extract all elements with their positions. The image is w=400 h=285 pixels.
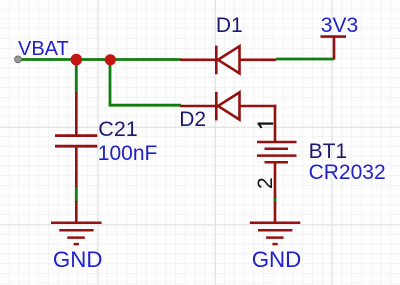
wire BT1 bottom to GND bbox=[274, 197, 277, 203]
pin number 1 bbox=[258, 123, 274, 128]
node VBAT open-end gray dot bbox=[15, 56, 22, 63]
svg-text:100nF: 100nF bbox=[98, 142, 158, 165]
major grid line vertical x=98 bbox=[97, 0, 99, 285]
junction node J1 bbox=[71, 54, 83, 66]
ground GND right bbox=[250, 202, 300, 244]
capacitor C21 bbox=[55, 92, 97, 187]
battery BT1 bbox=[257, 142, 297, 198]
svg-text:CR2032: CR2032 bbox=[309, 161, 386, 184]
svg-text:GND: GND bbox=[252, 247, 302, 272]
svg-text:D1: D1 bbox=[216, 14, 243, 37]
wire J2 down and right to D2 bbox=[109, 60, 181, 106]
ground GND left bbox=[51, 201, 102, 244]
svg-text:VBAT: VBAT bbox=[18, 38, 69, 60]
major grid line vertical x=332 bbox=[331, 0, 333, 285]
wire D2 down to BT1 bbox=[274, 105, 277, 141]
power port 3V3 bbox=[321, 37, 347, 60]
major grid line horizontal y=127 bbox=[0, 126, 400, 128]
svg-text:GND: GND bbox=[53, 247, 103, 272]
major grid line horizontal y=225 bbox=[0, 224, 400, 226]
svg-text:3V3: 3V3 bbox=[321, 14, 358, 37]
wire VBAT rail bbox=[18, 58, 181, 61]
diode D1 bbox=[180, 46, 276, 75]
junction node J2 bbox=[105, 54, 116, 65]
diode D2 bbox=[180, 92, 276, 121]
svg-text:BT1: BT1 bbox=[309, 140, 348, 163]
svg-text:2: 2 bbox=[254, 177, 277, 189]
major grid line vertical x=215.5 bbox=[215, 0, 217, 285]
wire C21 bottom to GND bbox=[75, 186, 78, 202]
wire D1 to 3V3 bbox=[276, 58, 334, 61]
svg-text:D2: D2 bbox=[179, 108, 206, 131]
wire J1 down to C21 bbox=[75, 60, 78, 94]
svg-text:C21: C21 bbox=[98, 117, 137, 141]
